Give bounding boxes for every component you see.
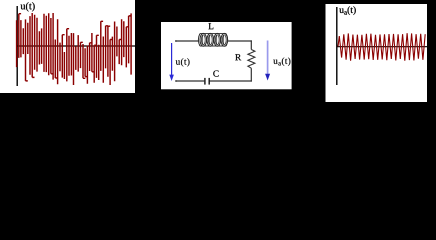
waveform ua(t): filtered output signal: [338, 33, 425, 61]
left plot y-axis: [16, 6, 18, 86]
inductor L: [198, 33, 227, 46]
resistor R: [248, 50, 255, 69]
wire: bottom-left segment (capacitor left plate to output terminal): [176, 80, 205, 82]
left plot panel: [0, 0, 135, 93]
label ua(t) of right plot: [339, 6, 355, 15]
wire: top-left segment from input terminal to inductor: [176, 40, 199, 42]
label C: [213, 70, 218, 76]
waveform u(t): noisy input signal: [17, 13, 132, 85]
label u(t): input voltage: [176, 58, 190, 66]
wire: right vertical upper segment (node B to resistor): [250, 40, 252, 49]
label L: [208, 23, 213, 29]
node A: top-left input terminal: [175, 40, 177, 42]
input voltage arrow u(t): [169, 43, 174, 81]
wire: bottom-right segment (node C to capacitor right plate): [209, 80, 252, 82]
right plot x-axis: [337, 46, 428, 48]
node D: bottom-left output terminal: [175, 80, 177, 82]
right plot panel: [326, 4, 428, 102]
node B: top-right corner junction: [251, 40, 252, 42]
left plot x-axis: [17, 45, 136, 47]
label R: [235, 54, 241, 60]
label ua(t): output voltage: [273, 58, 290, 66]
wire: top-right segment from inductor to node B: [227, 40, 251, 42]
output voltage arrow ua(t): [265, 41, 270, 81]
right plot y-axis: [336, 7, 338, 85]
circuit panel: [161, 22, 292, 89]
wire: right vertical lower segment (resistor to node C): [250, 68, 252, 81]
capacitor C: [205, 78, 209, 85]
label u(t) of left plot: [21, 2, 35, 11]
